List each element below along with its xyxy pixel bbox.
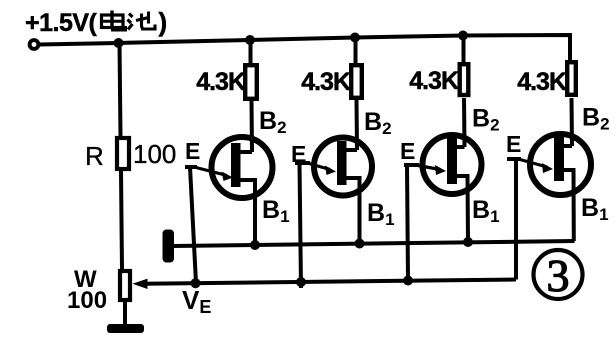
svg-text:E: E — [185, 138, 200, 164]
node junction top R column — [114, 38, 124, 48]
Q2 emitter arrow line — [309, 164, 330, 170]
potentiometer wiper arrow — [133, 279, 148, 289]
wire R4 to B2 of Q4 — [570, 98, 575, 146]
hanzi 电 — [102, 11, 126, 31]
wire Q3 B1 lead to B1 bus — [455, 176, 468, 242]
wire Q4 emitter stub — [507, 157, 521, 161]
Q2 body circle — [314, 138, 372, 196]
wire R column upper — [120, 43, 121, 136]
Q3 emitter arrowhead — [435, 165, 446, 175]
node junction top column 1 — [245, 35, 255, 45]
Q4 emitter arrow line — [520, 160, 547, 168]
svg-text:100: 100 — [67, 287, 107, 314]
svg-text:E: E — [400, 138, 415, 164]
Q4 body circle — [530, 134, 591, 195]
Q1 emitter arrowhead — [222, 172, 234, 182]
figure number 3 — [534, 250, 583, 301]
wire R1 top lead — [249, 40, 253, 63]
svg-text:): ) — [159, 7, 168, 37]
resistor R2 4.3K — [351, 65, 362, 98]
svg-text:R: R — [85, 141, 104, 171]
wire Q4 B1 lead to B1 bus right corner — [562, 170, 574, 241]
node junction top column 2 — [350, 33, 360, 43]
Q2 base bar — [337, 141, 347, 185]
node VE dot T2 — [296, 277, 306, 287]
transistor Q4 (UJT) — [507, 133, 591, 280]
wire R3 top lead — [462, 36, 466, 63]
resistor R1 4.3K — [245, 65, 257, 99]
Q4 base bar — [554, 133, 564, 181]
wire VE bus — [144, 280, 516, 284]
svg-text:E: E — [506, 131, 521, 157]
svg-text:4.3K: 4.3K — [517, 68, 567, 96]
wire Q2 B1 lead to B1 bus — [345, 178, 360, 244]
wire R to W — [121, 171, 122, 269]
resistor R4 4.3K — [567, 62, 576, 95]
Q4 emitter arrowhead — [542, 163, 553, 173]
Q2 pin B2 lead — [345, 148, 357, 152]
node junction top column 3 — [458, 31, 468, 41]
node B1 dot T2 — [355, 239, 365, 249]
Q3 emitter arrow line — [418, 166, 440, 170]
wire Q1 emitter down to VE bus — [190, 167, 196, 283]
wire W to ground — [123, 300, 127, 326]
wire Q2 emitter down to VE bus — [300, 163, 302, 288]
wire R2 to B2 of Q2 — [355, 100, 360, 150]
wire R2 top lead — [354, 38, 358, 64]
wire Q1 B1 lead to B1 bus — [239, 180, 255, 245]
resistor R — [117, 138, 129, 169]
Q3 pin B2 lead — [455, 145, 465, 149]
wire R3 to B2 of Q3 — [462, 98, 467, 147]
transistor Q2 (UJT) — [295, 138, 372, 289]
wire B1 bus — [173, 241, 575, 246]
svg-text:4.3K: 4.3K — [196, 68, 246, 96]
Q4 pin B2 lead — [562, 144, 572, 148]
Q3 body circle — [423, 135, 482, 194]
Q1 base bar — [231, 143, 241, 187]
capacitor plate bar (left terminal of B1 bus) — [163, 230, 175, 263]
Q1 emitter arrow line — [196, 168, 227, 176]
label +1.5V (battery) — [25, 7, 167, 37]
node B1 dot T3 — [463, 237, 473, 247]
wire Q3 emitter down to VE bus — [407, 165, 408, 281]
node battery terminal — [30, 40, 39, 49]
svg-text:3: 3 — [547, 250, 570, 301]
wire Q1 emitter stub — [185, 165, 197, 169]
transistor Q1 (UJT) — [185, 137, 273, 283]
wire Q2 emitter stub — [295, 161, 310, 165]
wire R1 to B2 of Q1 — [250, 101, 255, 152]
Q1 body circle — [212, 137, 273, 198]
ground — [107, 324, 144, 333]
resistor R3 4.3K — [460, 64, 469, 95]
wire top supply rail — [39, 35, 570, 61]
svg-text:+1.5V(: +1.5V( — [25, 9, 98, 37]
svg-text:4.3K: 4.3K — [409, 67, 459, 95]
svg-text:4.3K: 4.3K — [301, 68, 351, 96]
node VE dot T1 — [191, 278, 201, 288]
Q3 base bar — [447, 136, 457, 184]
wire Q4 emitter down to VE bus right corner — [514, 159, 518, 280]
svg-text:100: 100 — [133, 139, 176, 169]
Q1 pin B2 lead — [239, 150, 252, 154]
hanzi 池 — [128, 12, 156, 30]
node VE dot T3 — [403, 276, 413, 286]
wire Q3 emitter stub — [404, 163, 419, 167]
transistor Q3 (UJT) — [404, 135, 482, 281]
svg-text:E: E — [291, 141, 306, 167]
potentiometer W body — [120, 271, 130, 300]
node B1 dot T1 — [250, 240, 260, 250]
Q2 emitter arrowhead — [325, 166, 336, 176]
